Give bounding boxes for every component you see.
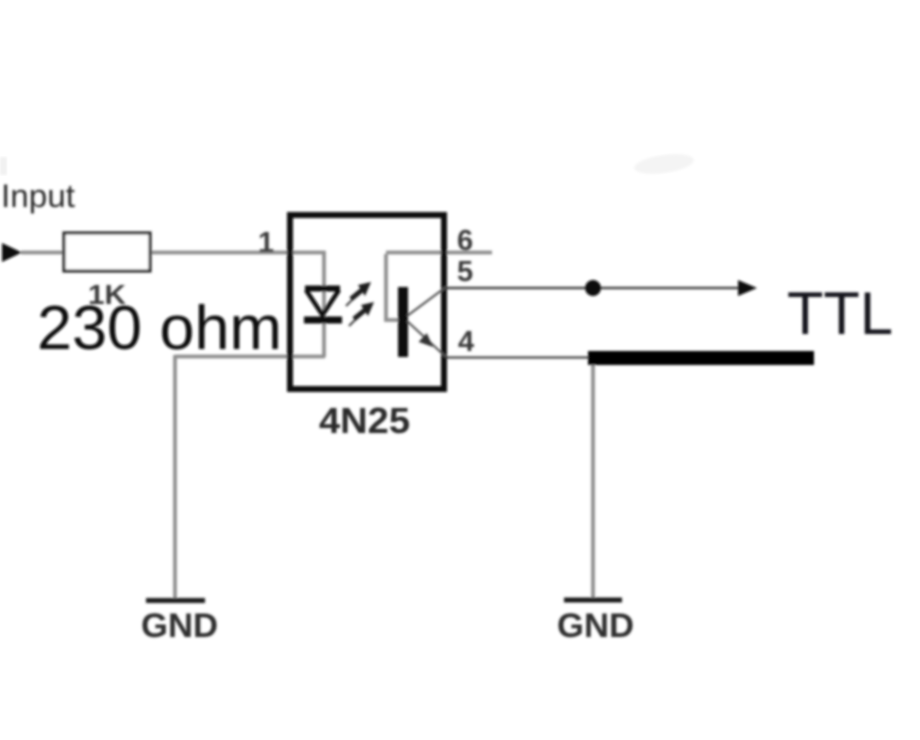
svg-text:GND: GND	[141, 607, 218, 645]
svg-text:4: 4	[458, 326, 474, 358]
svg-text:GND: GND	[557, 607, 634, 645]
svg-text:1: 1	[258, 227, 274, 259]
svg-text:5: 5	[457, 256, 473, 288]
svg-text:6: 6	[457, 225, 473, 257]
svg-text:230 ohm: 230 ohm	[37, 294, 282, 363]
svg-text:4N25: 4N25	[319, 400, 410, 441]
svg-text:TTL: TTL	[787, 280, 893, 347]
svg-text:Input: Input	[1, 178, 75, 214]
